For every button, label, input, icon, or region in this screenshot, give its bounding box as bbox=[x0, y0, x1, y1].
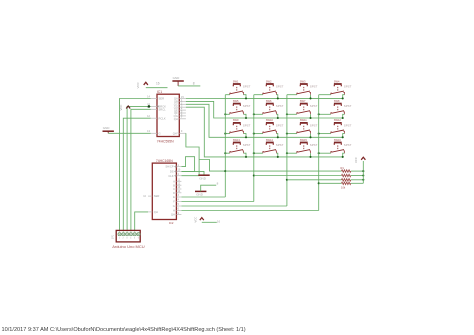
svg-text:74HC595N: 74HC595N bbox=[157, 140, 174, 144]
wire column 4 pull-up net bbox=[319, 182, 364, 184]
svg-text:SPST: SPST bbox=[344, 85, 352, 89]
wire column 1 vertical bbox=[224, 95, 226, 197]
wire column 2 vertical bbox=[253, 95, 255, 202]
svg-text:16: 16 bbox=[217, 219, 221, 223]
wire SW4 terminals to column 4 and row 1 bbox=[319, 95, 345, 100]
svg-text:SPST: SPST bbox=[243, 143, 251, 147]
svg-text:SPST: SPST bbox=[276, 104, 284, 108]
wire row 4 (IC1 QD to matrix row 4) bbox=[186, 107, 343, 157]
svg-text:VCC: VCC bbox=[136, 81, 140, 88]
resistor R2 bbox=[342, 174, 351, 177]
switch SW7 (row 2 col 3) bbox=[297, 99, 318, 114]
label 10k bbox=[341, 186, 346, 190]
svg-text:74HC165N: 74HC165N bbox=[156, 159, 173, 163]
wire SW9 terminals to column 1 and row 3 bbox=[224, 133, 247, 139]
wire SRCLK net (Arduino pad 3 to IC1 SRCLK) bbox=[127, 106, 151, 231]
status bar text bbox=[2, 327, 246, 333]
power symbol VCC (IC1 supply) bbox=[136, 81, 148, 88]
switch SW13 (row 4 col 1) bbox=[230, 138, 251, 153]
switch SW16 (row 4 col 4) bbox=[331, 138, 352, 153]
pin 16 label (IC2 VCC) bbox=[217, 219, 221, 223]
svg-text:8: 8 bbox=[193, 81, 195, 85]
wire SW7 terminals to column 3 and row 2 bbox=[286, 113, 312, 119]
switch SW9 (row 3 col 1) bbox=[230, 118, 251, 133]
wire row 3 (IC1 QC to matrix row 3) bbox=[186, 104, 343, 137]
switch SW14 (row 4 col 2) bbox=[263, 138, 284, 153]
svg-text:SPST: SPST bbox=[310, 143, 318, 147]
wire IC2 GND pin 8 bbox=[201, 185, 217, 191]
power symbol VCC (IC2 supply) bbox=[194, 217, 204, 223]
svg-text:GND: GND bbox=[196, 192, 204, 196]
switch SW8 (row 2 col 4) bbox=[331, 99, 352, 114]
switch SW3 (row 1 col 3) bbox=[297, 79, 318, 94]
switch SW12 (row 3 col 4) bbox=[331, 118, 352, 133]
wire column 1 to IC2 input bbox=[181, 196, 225, 198]
wire SW12 terminals to column 4 and row 3 bbox=[318, 133, 345, 139]
wire SW2 terminals to column 2 and row 1 bbox=[254, 95, 279, 100]
switch SW6 (row 2 col 2) bbox=[263, 99, 284, 114]
wire SW15 terminals to column 3 and row 4 bbox=[286, 152, 312, 158]
label Arduino Uno MCU bbox=[112, 244, 145, 249]
svg-text:SPST: SPST bbox=[310, 85, 318, 89]
switch SW5 (row 2 col 1) bbox=[230, 99, 251, 114]
op IC1 74HC595N shift register bbox=[147, 94, 186, 136]
pin 16 label (IC1 VCC) bbox=[156, 82, 160, 86]
wire pull-up bus to VCC bbox=[362, 161, 364, 183]
switch SW10 (row 3 col 2) bbox=[263, 118, 284, 133]
wire IC2 SH/CP pin riser bbox=[181, 157, 194, 172]
wire column 4 vertical bbox=[318, 95, 320, 211]
wire IC1 QH* to IC2 serial chain bbox=[181, 133, 199, 175]
svg-text:VCC: VCC bbox=[354, 157, 358, 163]
ground symbol GND (IC2 clock inhibit) bbox=[198, 175, 209, 180]
label JP1 bbox=[111, 234, 114, 239]
svg-text:SPST: SPST bbox=[243, 85, 251, 89]
svg-text:SPST: SPST bbox=[276, 123, 284, 127]
svg-text:VCC: VCC bbox=[119, 105, 123, 111]
resistor R1 bbox=[342, 170, 351, 173]
label R1 bbox=[341, 166, 345, 170]
resistor R4 bbox=[342, 182, 351, 185]
wire column 2 to IC2 input bbox=[181, 201, 253, 203]
wire branch to R1 net bbox=[199, 160, 225, 172]
svg-text:GND: GND bbox=[173, 76, 181, 80]
wire SRCLR net (pad 4 / VCC to IC1 SRCLR) bbox=[131, 109, 151, 231]
svg-text:16: 16 bbox=[156, 82, 160, 86]
svg-text:JP1: JP1 bbox=[111, 234, 114, 239]
wire row 2 (IC1 QB to matrix row 2) bbox=[186, 101, 343, 118]
wire SW1 terminals to column 1 and row 1 bbox=[225, 95, 247, 100]
wire SW6 terminals to column 2 and row 2 bbox=[253, 113, 279, 119]
wire VCC to IC1 pin 16 bbox=[146, 87, 168, 89]
wire SW16 terminals to column 4 and row 4 bbox=[318, 152, 345, 158]
wire IC2 DS pin to GND bbox=[181, 171, 204, 174]
wire column 1 pull-up net bbox=[225, 170, 363, 172]
svg-text:SPST: SPST bbox=[344, 143, 352, 147]
wire SW5 terminals to column 1 and row 2 bbox=[224, 113, 247, 119]
wire SER net (Arduino pad 1 to IC1 SER) bbox=[120, 99, 151, 232]
wire SW13 terminals to column 1 and row 4 bbox=[224, 152, 247, 158]
switch SW15 (row 4 col 3) bbox=[297, 138, 318, 153]
label 74HC165N bbox=[156, 159, 173, 163]
label IC2 bbox=[169, 221, 174, 225]
wire column 4 to IC2 input bbox=[181, 210, 318, 212]
junction pull-up bus R1 bbox=[362, 170, 364, 172]
resistor R3 bbox=[342, 179, 351, 182]
wire SW3 terminals to column 3 and row 1 bbox=[287, 95, 312, 100]
label IC1 bbox=[157, 90, 162, 94]
junction on SRCLK at IC1 pin bbox=[148, 105, 151, 108]
wire column 2 pull-up net bbox=[254, 175, 363, 177]
svg-text:GND: GND bbox=[103, 126, 111, 130]
svg-text:SPST: SPST bbox=[310, 123, 318, 127]
wire SW8 terminals to column 4 and row 2 bbox=[318, 113, 345, 119]
junction pull-up bus R2 bbox=[362, 174, 364, 176]
switch SW1 (row 1 col 1) bbox=[230, 79, 251, 94]
wire GND to IC1 pin 8 bbox=[178, 85, 200, 87]
svg-text:SPST: SPST bbox=[243, 123, 251, 127]
wire column 3 vertical bbox=[286, 95, 288, 206]
wire column 3 pull-up net bbox=[287, 179, 363, 181]
pin 8 label (IC2 GND) bbox=[217, 182, 219, 186]
svg-text:10/1/2017 9:37 AM C:\Users\Ob: 10/1/2017 9:37 AM C:\Users\ObuforN\Docum… bbox=[2, 327, 246, 333]
svg-text:VCC: VCC bbox=[194, 217, 198, 223]
wire SW10 terminals to column 2 and row 3 bbox=[253, 133, 279, 139]
wire SW14 terminals to column 2 and row 4 bbox=[253, 152, 279, 158]
svg-text:SPST: SPST bbox=[344, 104, 352, 108]
svg-text:SPST: SPST bbox=[310, 104, 318, 108]
pin 8 label (IC1 GND) bbox=[193, 81, 195, 85]
wire SW11 terminals to column 3 and row 3 bbox=[286, 133, 312, 139]
switch SW4 (row 1 col 4) bbox=[331, 79, 352, 94]
wire GND to IC1 OE pin 13 bbox=[108, 132, 151, 134]
wire column 3 to IC2 input bbox=[181, 205, 287, 207]
ground symbol GND (IC1 OE) bbox=[103, 126, 114, 133]
switch SW11 (row 3 col 3) bbox=[297, 118, 318, 133]
connector JP1 Arduino Uno header bbox=[116, 230, 140, 242]
label 74HC595N bbox=[157, 140, 174, 144]
switch SW2 (row 1 col 2) bbox=[263, 79, 284, 94]
svg-text:IC1: IC1 bbox=[157, 90, 162, 94]
power symbol VCC (pull-up bus) bbox=[354, 157, 365, 163]
svg-text:SPST: SPST bbox=[276, 85, 284, 89]
svg-text:GND: GND bbox=[199, 177, 207, 181]
wire IC2 VCC pin 16 bbox=[202, 221, 217, 223]
svg-text:SPST: SPST bbox=[344, 123, 352, 127]
wire IC2 QH to Arduino pad 5 bbox=[135, 212, 148, 232]
svg-text:SPST: SPST bbox=[243, 104, 251, 108]
svg-text:Arduino Uno MCU: Arduino Uno MCU bbox=[112, 244, 145, 249]
ground symbol GND (IC1 supply) bbox=[172, 76, 183, 86]
ground symbol GND (IC2 supply) bbox=[195, 191, 206, 196]
power symbol VCC (IC1 SRCLR pull-up) bbox=[119, 105, 130, 111]
junction pull-up bus R3 bbox=[362, 179, 364, 181]
svg-text:SPST: SPST bbox=[276, 143, 284, 147]
svg-text:IC2: IC2 bbox=[169, 221, 174, 225]
op IC2 74HC165N shift register bbox=[143, 163, 181, 219]
wire row 1 (IC1 QA to matrix row 1) bbox=[186, 97, 343, 99]
wire RCLK net (Arduino pad 2 to IC1 RCLK) bbox=[123, 118, 150, 231]
